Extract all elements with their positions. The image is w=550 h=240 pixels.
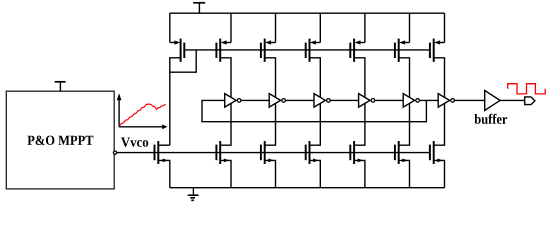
buffer: [485, 90, 500, 110]
Vvco ramp graph y-axis: [117, 93, 122, 127]
ground rail: [170, 187, 445, 189]
wire PMOS gate bus: [184, 49, 430, 51]
inverter stage 6: [438, 94, 454, 108]
PMOS current source stage 1: [216, 13, 231, 97]
wire inverter 1 output to inverter 2 input: [241, 99, 269, 101]
wire inverter 2 output to inverter 3 input: [285, 99, 314, 101]
red output square wave: [508, 84, 546, 94]
Vvco label: [121, 138, 148, 147]
output terminal: [525, 97, 535, 105]
wire ring feedback: [202, 100, 426, 121]
Vvco ramp graph x-axis: [119, 124, 167, 129]
NMOS current sink stage 6: [430, 103, 445, 187]
PMOS current source stage 4: [350, 13, 365, 97]
P&O MPPT block: [6, 91, 114, 189]
NMOS M2 (bias, gate driven by Vvco): [155, 141, 170, 188]
wire diode connection M1 gate-drain: [170, 50, 196, 72]
VDD supply symbol: [193, 3, 205, 13]
VDD rail: [170, 12, 445, 14]
ground symbol: [188, 188, 199, 201]
PMOS M1 (diode-connected bias): [170, 13, 185, 145]
buffer label: [475, 114, 508, 124]
inverter stage 5: [403, 94, 419, 108]
NMOS current sink stage 4: [350, 103, 365, 187]
wire buffer output: [500, 99, 525, 101]
inverter stage 1: [225, 94, 241, 108]
inverter stage 3: [314, 94, 330, 108]
wire inverter 4 output to inverter 5 input: [375, 99, 403, 101]
PMOS current source stage 2: [261, 13, 276, 97]
NMOS current sink stage 5: [395, 103, 410, 187]
node Vvco terminal: [113, 151, 116, 154]
inverter stage 2: [269, 94, 285, 108]
wire inverter 5 output to inverter 6 input: [419, 99, 438, 101]
PMOS current source stage 5: [395, 13, 410, 97]
red Vvco ramp waveform: [119, 104, 165, 126]
NMOS current sink stage 3: [306, 103, 321, 187]
PMOS current source stage 6: [430, 13, 445, 97]
wire inverter 3 output to inverter 4 input: [330, 99, 358, 101]
NMOS current sink stage 2: [261, 103, 276, 187]
wire inverter 6 output to buffer: [454, 99, 484, 101]
wire Vvco gate bus: [117, 152, 430, 154]
NMOS current sink stage 1: [216, 103, 231, 187]
supply symbol on MPPT block: [55, 82, 66, 91]
inverter stage 4: [359, 94, 375, 108]
PMOS current source stage 3: [306, 13, 321, 97]
